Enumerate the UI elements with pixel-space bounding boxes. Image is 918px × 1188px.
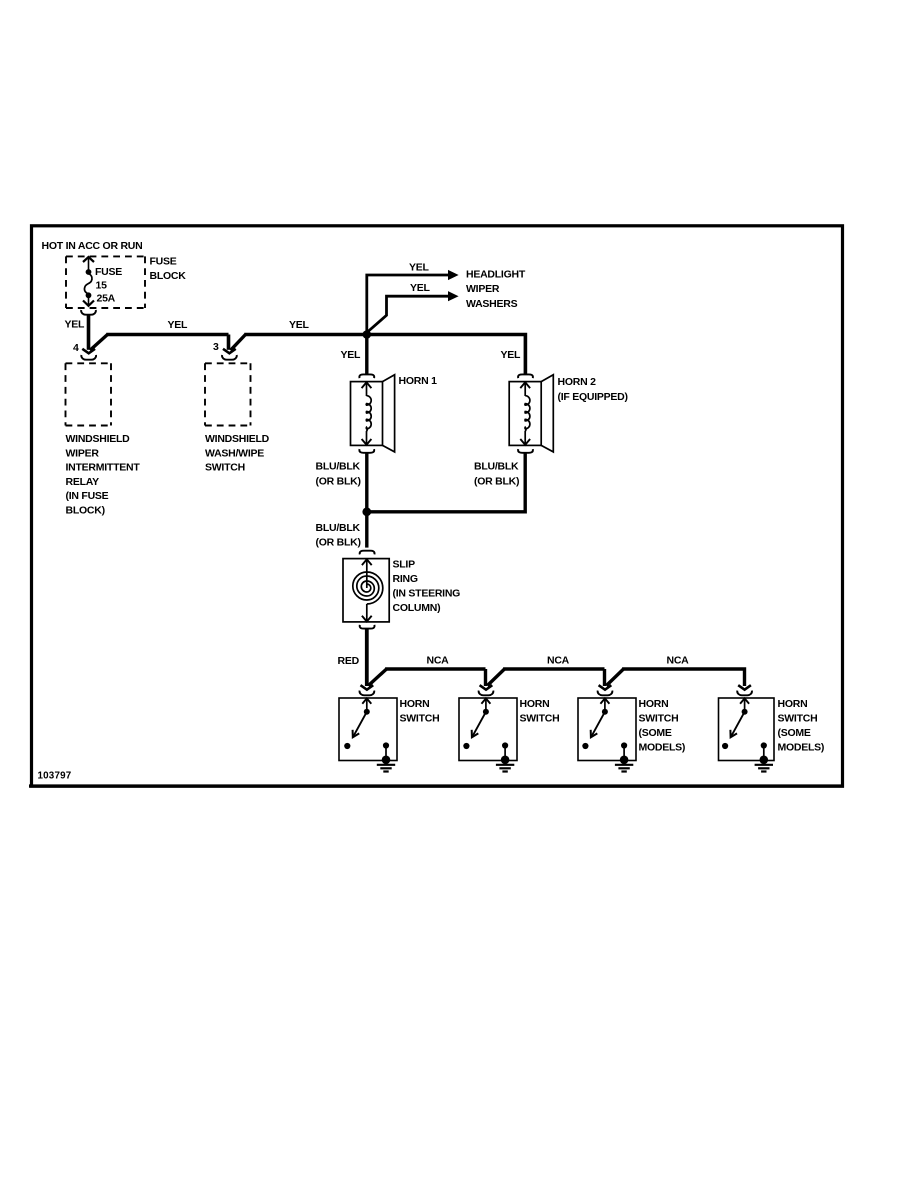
label NCA 2: [547, 655, 570, 667]
fuse feed arrow (up): [83, 257, 94, 270]
horn switch 4: [719, 685, 775, 764]
svg-text:(OR BLK): (OR BLK): [474, 476, 519, 488]
wire BLU/BLK horn1 to junction: [365, 453, 368, 511]
wire NCA segment 3: [622, 669, 744, 686]
label FUSE BLOCK: [150, 256, 187, 283]
svg-text:INTERMITTENT: INTERMITTENT: [66, 462, 141, 474]
label RED: [338, 655, 360, 667]
wire NCA diagonal at switch 2: [487, 669, 504, 686]
svg-text:RELAY: RELAY: [66, 476, 100, 488]
label BLU/BLK (OR BLK) horn1: [316, 461, 361, 488]
fuse 15 (25A): [83, 269, 94, 306]
ground (switch 4): [755, 765, 773, 772]
svg-text:YEL: YEL: [409, 262, 430, 274]
svg-text:WIPER: WIPER: [466, 283, 500, 295]
svg-text:WASHERS: WASHERS: [466, 298, 518, 310]
label SLIP RING (IN STEERING COLUMN): [393, 558, 461, 614]
wire YEL branch diagonal at pin 3: [231, 335, 246, 351]
svg-text:HORN: HORN: [639, 698, 669, 710]
wire YEL branch diagonal at pin 4: [90, 335, 108, 351]
node junction YEL: [363, 330, 372, 339]
label HORN 2 (IF EQUIPPED): [558, 376, 628, 403]
wire RED slip ring to horn switch 1: [365, 629, 369, 686]
wire YEL junction to horn 2 (drop already drawn) and horn2 top connector: [518, 374, 533, 378]
svg-text:MODELS): MODELS): [639, 742, 686, 754]
svg-text:(OR BLK): (OR BLK): [316, 476, 361, 488]
label YEL (segment 4-3): [168, 319, 189, 331]
wire BLU/BLK junction to slip ring: [365, 512, 368, 548]
pin 4 connector: [81, 349, 96, 360]
wire NCA segment 2: [503, 667, 604, 670]
label 4: [73, 342, 79, 354]
svg-text:YEL: YEL: [341, 349, 362, 361]
windshield wiper intermittent relay dashed box: [66, 363, 112, 425]
svg-text:HORN 2: HORN 2: [558, 376, 597, 388]
fuse block dashed box: [66, 256, 145, 308]
svg-text:NCA: NCA: [547, 655, 570, 667]
svg-text:BLU/BLK: BLU/BLK: [474, 461, 519, 473]
label 3: [213, 341, 219, 353]
node junction BLU/BLK: [362, 507, 371, 516]
svg-text:BLOCK): BLOCK): [66, 505, 105, 517]
svg-text:(IF EQUIPPED): (IF EQUIPPED): [558, 391, 628, 403]
off-page arrow WIPER WASHERS: [448, 291, 459, 301]
svg-text:3: 3: [213, 341, 219, 353]
svg-text:FUSE: FUSE: [95, 266, 122, 278]
wire YEL junction to horn 1: [365, 335, 368, 375]
label HORN SWITCH (SOME MODELS) 3: [639, 698, 686, 754]
wire BLU/BLK horn2 down to junction row: [367, 453, 525, 511]
svg-text:(OR BLK): (OR BLK): [316, 536, 361, 548]
svg-text:RED: RED: [338, 655, 360, 667]
svg-text:(SOME: (SOME: [639, 727, 672, 739]
label YEL (fuse output): [65, 319, 86, 331]
svg-text:YEL: YEL: [65, 319, 86, 331]
label HORN SWITCH 2: [520, 698, 560, 725]
label BLU/BLK (OR BLK) horn2: [474, 461, 519, 488]
label HORN 1: [399, 375, 438, 387]
label NCA 1: [427, 655, 450, 667]
svg-text:BLOCK: BLOCK: [150, 270, 187, 282]
svg-text:HORN 1: HORN 1: [399, 375, 438, 387]
in-line connector below fuse block: [81, 310, 96, 315]
windshield wash/wipe switch dashed box: [205, 363, 251, 425]
label YEL (segment 3-junction): [289, 319, 310, 331]
wire NCA diagonal at switch 1: [368, 669, 386, 686]
label HORN SWITCH 1: [400, 698, 440, 725]
ground (switch 1): [377, 765, 395, 772]
svg-text:FUSE: FUSE: [150, 256, 177, 268]
label WINDSHIELD WIPER INTERMITTENT RELAY (IN FUSE BLOCK): [66, 433, 141, 517]
horn switch 1: [339, 685, 397, 764]
wire YEL branch up to HEADLIGHT arrow: [367, 275, 449, 333]
wire stub down at pin 3: [227, 335, 231, 350]
label NCA 3: [667, 655, 690, 667]
svg-text:SWITCH: SWITCH: [778, 713, 818, 725]
slip ring (in steering column): [343, 559, 389, 622]
svg-text:WIPER: WIPER: [66, 447, 100, 459]
svg-text:SWITCH: SWITCH: [520, 713, 560, 725]
svg-text:YEL: YEL: [168, 319, 189, 331]
label YEL (wiper washers branch): [410, 282, 431, 294]
svg-text:BLU/BLK: BLU/BLK: [316, 522, 361, 534]
svg-text:WINDSHIELD: WINDSHIELD: [205, 433, 270, 445]
ground (switch 2): [496, 765, 514, 772]
pin 3 connector: [222, 349, 237, 360]
svg-text:RING: RING: [393, 573, 418, 585]
svg-text:(SOME: (SOME: [778, 727, 811, 739]
wire YEL horizontal pin4 to pin3: [106, 333, 228, 337]
svg-text:COLUMN): COLUMN): [393, 602, 441, 614]
off-page arrow HEADLIGHT: [448, 270, 459, 280]
svg-text:SWITCH: SWITCH: [639, 713, 679, 725]
wire YEL from fuse to pin 4: [87, 315, 91, 350]
svg-text:HORN: HORN: [778, 698, 808, 710]
wire NCA diagonal at switch 3: [606, 669, 623, 686]
svg-text:HEADLIGHT: HEADLIGHT: [466, 269, 526, 281]
fuse value labels FUSE 15 25A: [95, 266, 122, 305]
slip ring connector (top): [360, 551, 375, 555]
svg-text:YEL: YEL: [410, 282, 431, 294]
horn 2 connector (bottom): [518, 449, 533, 453]
wire NCA stub at switch 3: [603, 669, 606, 686]
svg-text:25A: 25A: [97, 293, 116, 305]
horn switch 2: [459, 685, 517, 764]
svg-text:(IN STEERING: (IN STEERING: [393, 587, 461, 599]
svg-text:YEL: YEL: [289, 319, 310, 331]
horn 1 HORN 1: [351, 375, 395, 452]
svg-text:NCA: NCA: [427, 655, 450, 667]
svg-text:MODELS): MODELS): [778, 742, 825, 754]
svg-text:SWITCH: SWITCH: [205, 462, 245, 474]
svg-text:HORN: HORN: [520, 698, 550, 710]
figure number 103797: [38, 771, 72, 782]
svg-text:BLU/BLK: BLU/BLK: [316, 461, 361, 473]
label BLU/BLK (OR BLK) to slip ring: [316, 522, 361, 548]
wire NCA segment 1: [385, 667, 485, 670]
svg-text:(IN FUSE: (IN FUSE: [66, 490, 109, 502]
svg-text:HOT IN ACC OR RUN: HOT IN ACC OR RUN: [42, 240, 143, 252]
ground (switch 3): [615, 765, 633, 772]
svg-text:YEL: YEL: [501, 349, 522, 361]
wire YEL branch to WIPER WASHERS arrow: [368, 296, 449, 331]
svg-text:15: 15: [96, 280, 108, 292]
svg-text:NCA: NCA: [667, 655, 690, 667]
net label HOT IN ACC OR RUN: [42, 240, 143, 252]
svg-text:103797: 103797: [38, 771, 72, 782]
svg-text:WASH/WIPE: WASH/WIPE: [205, 447, 264, 459]
label YEL (horn 1): [341, 349, 362, 361]
horn 1 connector (top): [359, 374, 374, 378]
slip ring connector (bottom): [360, 625, 375, 629]
svg-text:HORN: HORN: [400, 698, 430, 710]
horn 1 connector (bottom): [359, 449, 374, 453]
horn 2 HORN 2: [509, 375, 553, 452]
svg-text:SLIP: SLIP: [393, 558, 416, 570]
label WINDSHIELD WASH/WIPE SWITCH: [205, 433, 270, 474]
svg-text:4: 4: [73, 342, 79, 354]
wire YEL horizontal pin3 to junction to horn2 drop: [244, 335, 525, 374]
svg-text:SWITCH: SWITCH: [400, 713, 440, 725]
label YEL (horn 2): [501, 349, 522, 361]
label YEL (headlight branch): [409, 262, 430, 274]
label HORN SWITCH (SOME MODELS) 4: [778, 698, 825, 754]
svg-text:WINDSHIELD: WINDSHIELD: [66, 433, 131, 445]
wire NCA stub at switch 2: [484, 669, 487, 686]
horn switch 3: [578, 685, 636, 764]
label HEADLIGHT WIPER WASHERS: [466, 269, 526, 310]
